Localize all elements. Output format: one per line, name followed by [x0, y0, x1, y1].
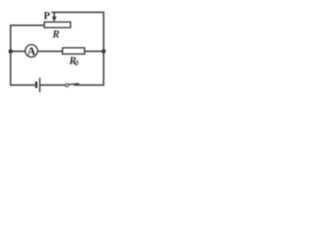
- svg-text:0: 0: [75, 58, 79, 67]
- svg-text:R: R: [52, 30, 60, 41]
- svg-text:A: A: [27, 44, 36, 58]
- svg-text:P: P: [44, 11, 51, 22]
